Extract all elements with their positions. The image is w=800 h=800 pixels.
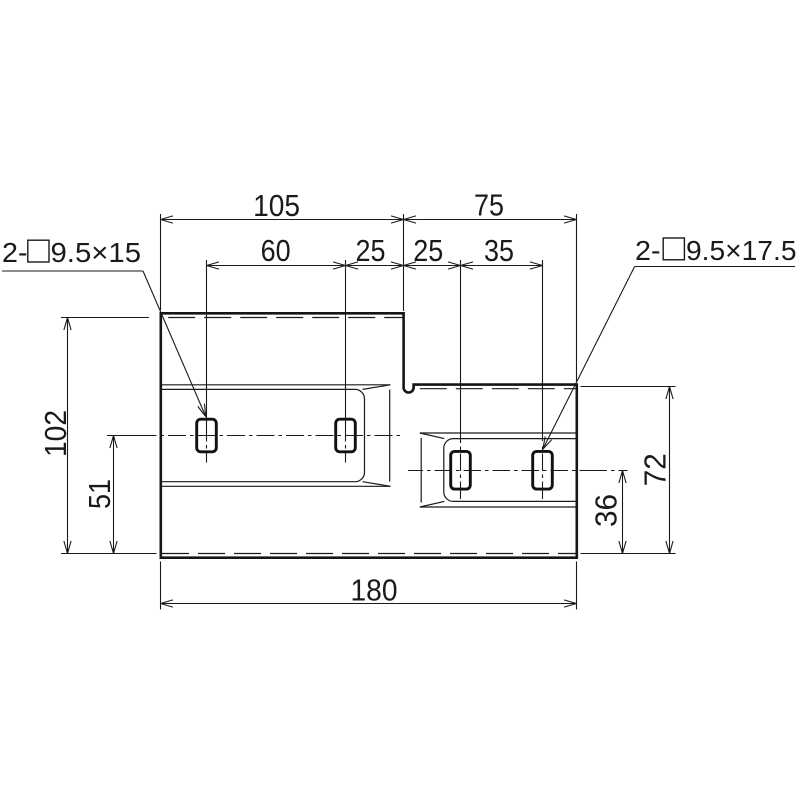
hidden line bottom — [162, 553, 576, 555]
left flange long bottom line — [162, 485, 391, 487]
slot L2 — [336, 419, 356, 452]
dimension line 102 — [67, 318, 69, 554]
left flange long top line — [162, 384, 391, 386]
centerline left slots horizontal — [107, 435, 146, 437]
arrows — [64, 216, 673, 607]
bottom dim 180 extension lines — [160, 562, 162, 610]
svg-text:51: 51 — [82, 479, 117, 509]
svg-text:102: 102 — [38, 410, 73, 457]
svg-text:2-: 2- — [635, 235, 661, 266]
dimension line 36 — [622, 471, 624, 554]
dimension line 180 — [161, 603, 577, 605]
svg-text:180: 180 — [351, 573, 398, 608]
svg-text:105: 105 — [253, 188, 300, 223]
hidden line top right section — [420, 388, 576, 390]
svg-text:72: 72 — [638, 453, 673, 486]
svg-text:25: 25 — [356, 233, 386, 268]
left bend line rounded — [162, 389, 365, 481]
left flange chamfer top — [363, 385, 391, 390]
dimension line 51 — [113, 436, 115, 554]
right flange long bottom line — [420, 506, 576, 508]
svg-text:9.5×15: 9.5×15 — [51, 237, 142, 268]
extension lines top dims — [160, 214, 162, 310]
centerline right slots horizontal — [408, 470, 628, 472]
leader left — [143, 271, 206, 417]
part outline — [161, 313, 577, 557]
slot R2 — [533, 451, 553, 489]
dimension line 105 / 75 — [161, 219, 577, 221]
dimension line 60 / 25 / 25 / 35 — [207, 265, 543, 267]
svg-text:35: 35 — [484, 233, 514, 268]
right flange chamfer bottom — [420, 501, 445, 507]
left dim 102 extension lines — [61, 317, 149, 319]
svg-text:60: 60 — [261, 233, 291, 268]
right bend line rounded — [444, 439, 576, 502]
svg-text:75: 75 — [474, 188, 504, 223]
right flange long top line — [420, 432, 576, 434]
right flange edge vertical — [420, 438, 422, 503]
left flange chamfer bottom — [363, 482, 391, 487]
label right underline — [635, 266, 795, 268]
svg-text:9.5×17.5: 9.5×17.5 — [686, 235, 797, 266]
label left underline — [2, 270, 143, 272]
right dim 72 extension lines — [581, 386, 676, 388]
svg-text:2-: 2- — [2, 237, 27, 268]
slot R1 — [451, 451, 471, 489]
hidden line top left section — [162, 317, 403, 319]
svg-text:36: 36 — [588, 494, 623, 527]
right flange chamfer top — [420, 433, 445, 439]
slot L1 — [197, 419, 217, 452]
dimension line 72 — [669, 387, 671, 554]
leader right — [543, 267, 635, 450]
left flange edge vertical — [389, 390, 391, 482]
svg-text:25: 25 — [413, 233, 443, 268]
